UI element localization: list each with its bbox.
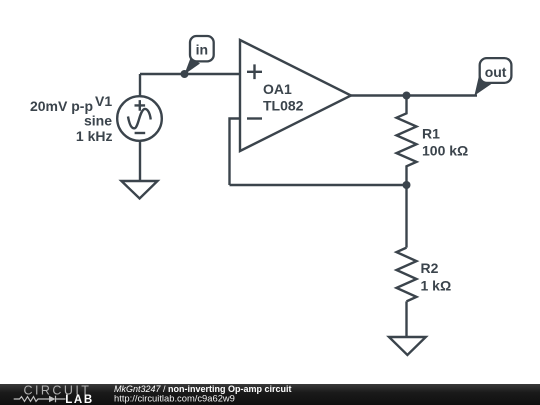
node dot at out	[403, 92, 411, 100]
wire V1 top lead	[139, 74, 141, 96]
svg-text:out: out	[485, 64, 507, 80]
ground G1 (below V1)	[121, 181, 157, 199]
node flag "in"	[184, 36, 213, 75]
footer bar	[0, 383, 540, 405]
svg-text:V1: V1	[95, 93, 112, 109]
op-amp U1 triangle	[240, 40, 351, 151]
wire output	[351, 94, 477, 96]
svg-text:LAB: LAB	[65, 394, 93, 405]
wire feedback stub from - input	[230, 119, 241, 186]
node dot at in	[181, 70, 189, 78]
voltage source V1	[117, 96, 162, 141]
logo resistor-diode squiggle	[14, 396, 66, 402]
node flag "out"	[474, 58, 511, 96]
svg-text:OA1: OA1	[263, 81, 292, 97]
wire junction to R2	[405, 185, 407, 248]
svg-text:TL082: TL082	[263, 98, 304, 114]
svg-text:http://circuitlab.com/c9a62w9: http://circuitlab.com/c9a62w9	[114, 392, 235, 403]
svg-text:1 kΩ: 1 kΩ	[421, 278, 452, 294]
svg-text:sine: sine	[84, 113, 112, 129]
svg-text:R2: R2	[421, 260, 439, 276]
wire V1 bottom lead	[139, 141, 141, 181]
svg-text:1 kHz: 1 kHz	[76, 128, 113, 144]
wire R2 to ground	[405, 301, 407, 337]
wire top horizontal (V1 to op-amp +)	[140, 73, 240, 75]
wire feedback horizontal	[230, 184, 407, 186]
svg-text:in: in	[196, 42, 208, 58]
resistor R1	[397, 96, 417, 186]
svg-text:R1: R1	[422, 126, 440, 142]
resistor R2	[397, 248, 417, 302]
svg-text:100 kΩ: 100 kΩ	[422, 143, 468, 159]
op-amp - pin symbol	[247, 117, 262, 119]
op-amp + pin symbol	[247, 64, 262, 79]
junction dot feedback	[403, 181, 411, 189]
ground G2 (below R2)	[389, 337, 426, 355]
